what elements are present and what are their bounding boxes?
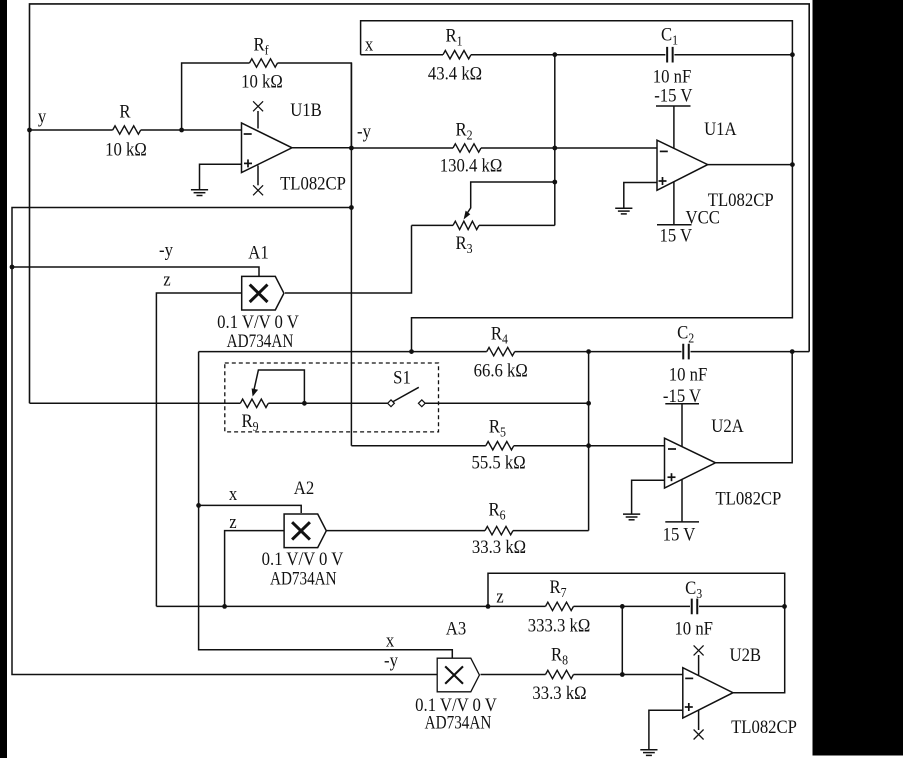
svg-text:AD734AN: AD734AN [227, 330, 294, 351]
svg-text:AD734AN: AD734AN [425, 712, 492, 733]
svg-text:z: z [163, 269, 170, 290]
svg-text:15 V: 15 V [659, 224, 692, 245]
svg-text:A3: A3 [446, 617, 466, 638]
svg-text:x: x [229, 483, 237, 504]
svg-text:x: x [365, 34, 373, 55]
svg-text:333.3 kΩ: 333.3 kΩ [528, 615, 591, 636]
svg-text:A2: A2 [294, 477, 314, 498]
svg-text:x: x [386, 630, 394, 651]
svg-text:15 V: 15 V [663, 523, 696, 544]
svg-text:S1: S1 [393, 366, 411, 387]
svg-text:10 nF: 10 nF [674, 618, 713, 639]
svg-text:55.5 kΩ: 55.5 kΩ [472, 452, 526, 473]
svg-text:A1: A1 [248, 241, 268, 262]
svg-text:U2B: U2B [730, 644, 762, 665]
svg-text:-y: -y [384, 650, 398, 671]
svg-text:0.1 V/V 0 V: 0.1 V/V 0 V [217, 311, 299, 332]
svg-text:-y: -y [159, 239, 173, 260]
svg-text:43.4 kΩ: 43.4 kΩ [428, 63, 482, 84]
svg-text:TL082CP: TL082CP [715, 487, 781, 508]
svg-text:TL082CP: TL082CP [280, 172, 346, 193]
svg-text:y: y [38, 106, 46, 127]
svg-text:66.6 kΩ: 66.6 kΩ [474, 360, 528, 381]
svg-text:10 kΩ: 10 kΩ [241, 71, 283, 92]
svg-text:-y: -y [357, 121, 371, 142]
svg-text:10 kΩ: 10 kΩ [105, 139, 147, 160]
svg-text:-15 V: -15 V [654, 84, 692, 105]
svg-text:R: R [119, 100, 130, 121]
svg-text:z: z [496, 586, 503, 607]
svg-text:TL082CP: TL082CP [731, 716, 797, 737]
svg-text:-15 V: -15 V [663, 385, 701, 406]
svg-text:0.1 V/V 0 V: 0.1 V/V 0 V [262, 548, 344, 569]
svg-text:U1A: U1A [704, 118, 737, 139]
svg-text:U2A: U2A [711, 415, 744, 436]
svg-text:33.3 kΩ: 33.3 kΩ [532, 682, 586, 703]
svg-text:z: z [229, 511, 236, 532]
svg-text:130.4 kΩ: 130.4 kΩ [440, 155, 503, 176]
svg-text:AD734AN: AD734AN [270, 568, 337, 589]
svg-text:U1B: U1B [290, 99, 322, 120]
svg-text:10 nF: 10 nF [669, 364, 708, 385]
svg-text:33.3 kΩ: 33.3 kΩ [472, 536, 526, 557]
